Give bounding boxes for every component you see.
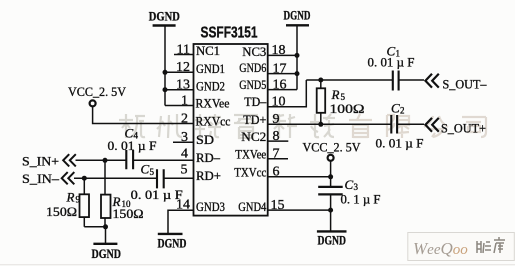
svg-text:TD+: TD+ [243,113,266,127]
wire VCC-right stem [330,161,332,186]
wire pin13 [165,89,194,91]
svg-text:RXVcc: RXVcc [196,115,231,129]
power VCC_2.5V left [68,84,127,107]
capacitor C5 [131,162,183,202]
svg-text:0. 01 µ F: 0. 01 µ F [108,139,157,153]
node junction pin18-DGND [295,53,300,58]
svg-text:TXVee: TXVee [235,147,266,161]
svg-text:0. 01 µ F: 0. 01 µ F [368,56,415,70]
wire C1 to S_OUT- [399,79,424,81]
svg-text:RD+: RD+ [196,169,221,183]
capacitor C1 [368,43,415,90]
node junction R10 top [103,158,108,163]
svg-text:WeeQoo: WeeQoo [413,239,468,258]
svg-text:100Ω: 100Ω [330,101,365,116]
capacitor C3 [318,177,380,207]
svg-text:DGND: DGND [284,8,311,23]
svg-text:DGND: DGND [92,246,122,261]
svg-text:S_IN–: S_IN– [22,171,60,186]
svg-text:RXVee: RXVee [196,97,230,111]
wire TD- net to C1 [306,79,392,81]
svg-text:NC3: NC3 [242,45,266,59]
node junction pin17-DGND [295,71,300,76]
wire S_IN+ to C4 [76,159,127,161]
wire pin9 TD+ line [268,123,391,125]
resistor R10 [101,160,144,227]
capacitor C4 [108,125,157,169]
wire pin14 [168,210,194,234]
svg-text:GND4: GND4 [238,200,267,214]
wire C4 to pin4 [133,159,193,161]
svg-text:4: 4 [181,147,188,162]
svg-text:0. 01 µ F: 0. 01 µ F [131,188,183,202]
svg-text:TD–: TD– [244,95,267,109]
svg-text:17: 17 [273,61,287,76]
wire VCC-left stem [93,107,194,124]
ground DGND top-left [149,9,180,26]
svg-text:GND1: GND1 [196,62,225,76]
wire pin6 TXVcc [268,176,331,178]
svg-text:8: 8 [273,129,280,144]
wire pin8 NC2 stub [268,140,289,142]
svg-text:6: 6 [273,165,280,180]
jiang [195,114,221,138]
svg-text:RD–: RD– [196,151,221,165]
svg-text:1: 1 [181,93,188,108]
node junction pin6-VCC [328,174,333,179]
svg-text:18: 18 [272,43,286,58]
svg-text:3: 3 [181,130,188,145]
wire pin18 [268,54,297,56]
port S_OUT+ [425,118,486,136]
wire C2 to S_OUT+ [398,123,424,125]
svg-text:11: 11 [177,42,190,57]
svg-text:150Ω: 150Ω [113,206,144,221]
ke [272,114,297,138]
wire pin12 [165,71,194,73]
watermark [119,114,486,138]
port S_OUT- [425,74,487,92]
svg-text:GND3: GND3 [196,200,225,214]
bottom scan edge [0,264,515,266]
svg-text:2: 2 [400,106,405,116]
svg-text:VCC_2. 5V: VCC_2. 5V [68,84,127,99]
si [462,117,486,137]
svg-text:GND6: GND6 [239,61,266,75]
node junction R10 bottom [103,224,108,229]
port S_IN- [22,171,74,186]
svg-text:TXVcc: TXVcc [234,166,266,180]
wire pin17 [268,73,297,75]
IC label SSFF3151 [201,25,258,42]
wire pin7 TXVee stub [268,158,288,160]
svg-text:13: 13 [176,78,190,93]
svg-text:5: 5 [150,167,155,177]
wire C5 to pin5 [164,177,194,179]
wire pin11 stub [174,54,194,56]
svg-text:R: R [331,87,340,102]
ground DGND bottom-right [317,231,347,247]
svg-text:0. 01 µ F: 0. 01 µ F [376,137,424,151]
node junction R5 top [318,78,323,83]
svg-text:NC1: NC1 [196,44,220,58]
svg-text:3: 3 [354,182,359,192]
capacitor C2 [376,100,424,150]
port S_IN+ [22,153,76,168]
svg-text:5: 5 [181,163,188,178]
svg-text:0. 1 µ F: 0. 1 µ F [341,193,381,207]
zhou [157,114,182,138]
wire pin15 GND4 [268,209,331,211]
ji [310,114,335,137]
svg-text:7: 7 [273,147,280,162]
resistor R9 [46,178,89,227]
svg-text:C: C [391,100,400,115]
node junction pin12-DGND [163,70,168,75]
gong [424,116,448,137]
svg-text:S_OUT–: S_OUT– [443,76,487,91]
svg-text:R: R [66,190,75,205]
wire C3 bottom stem [330,196,332,232]
wire S_IN- to C5 [74,177,157,179]
watermark logo WeeQoo box [408,233,515,261]
svg-text:DGND: DGND [318,232,347,247]
rui [234,115,258,138]
power VCC_2.5V right [303,140,362,161]
wire R9-R10 bottom connector [84,226,105,228]
svg-text:14: 14 [176,198,190,213]
wire pin3 stub [173,141,194,143]
svg-text:9: 9 [273,112,280,127]
wire DGND-right vertical [296,25,298,89]
ground DGND bottom-left [92,227,122,261]
svg-text:NC2: NC2 [241,130,266,144]
svg-text:VCC_2. 5V: VCC_2. 5V [303,140,362,155]
resistor R5 [317,80,365,124]
you [349,114,372,138]
svg-text:2: 2 [181,111,188,126]
svg-text:16: 16 [273,77,287,92]
svg-text:S_OUT+: S_OUT+ [441,121,486,136]
node junction pin13-DGND [163,87,168,92]
svg-text:12: 12 [176,60,190,75]
xian [387,115,409,138]
node junction pin15-C3 [328,208,333,213]
svg-text:GND5: GND5 [239,78,266,92]
ground DGND bottom-middle [158,234,187,251]
IC U1 SSFF3151 body [194,44,268,216]
wire pin1 [165,105,194,107]
svg-text:10: 10 [272,95,286,110]
svg-text:DGND: DGND [158,236,187,251]
svg-text:SSFF3151: SSFF3151 [201,25,258,42]
svg-text:C: C [141,162,150,177]
ground DGND top-right [284,8,311,26]
svg-text:DGND: DGND [149,9,180,24]
wire pin16 [268,89,297,91]
svg-text:S_IN+: S_IN+ [22,153,59,168]
wire pin10 TD- to C1 line [268,80,307,107]
node junction R5 bottom [318,122,323,127]
wire DGND-left vertical [164,26,166,106]
svg-text:SD: SD [196,133,214,147]
svg-text:GND2: GND2 [196,79,225,93]
node junction R9 top [82,176,87,181]
svg-text:150Ω: 150Ω [46,204,77,219]
svg-text:C: C [345,177,354,192]
svg-text:15: 15 [271,198,285,213]
hang [119,114,145,138]
